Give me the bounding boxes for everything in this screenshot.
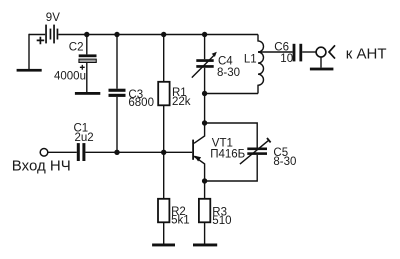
svg-text:к АНТ: к АНТ (346, 46, 387, 63)
ground (R3) (193, 244, 217, 247)
svg-text:22k: 22k (172, 96, 191, 108)
node rail/R1 (161, 32, 166, 37)
svg-text:6800: 6800 (128, 97, 154, 109)
wire input to C1 (48, 151, 77, 153)
node base/C3 (114, 150, 119, 155)
svg-text:9V: 9V (46, 12, 60, 24)
wire rail to C2 (86, 35, 88, 55)
svg-text:П416Б: П416Б (210, 149, 245, 161)
svg-text:510: 510 (212, 215, 231, 227)
resistor R3 (199, 199, 210, 223)
wire rail to C4 (204, 35, 206, 60)
svg-text:5k1: 5k1 (171, 215, 190, 227)
node collector/C5 (202, 120, 207, 125)
svg-text:10: 10 (280, 53, 293, 65)
resistor R1 (158, 82, 169, 106)
variable capacitor C5 (240, 138, 271, 164)
svg-text:2u2: 2u2 (75, 132, 94, 144)
inductor L1 (258, 35, 264, 94)
svg-text:4000u: 4000u (54, 70, 86, 82)
capacitor C2 (79, 54, 97, 69)
battery 9V (37, 25, 59, 45)
wire C5 to emitter node (205, 155, 258, 181)
svg-text:C6: C6 (274, 41, 289, 53)
ground (battery) (17, 69, 42, 72)
node rail/C4 (202, 32, 207, 37)
node L1/C4 (202, 91, 207, 96)
wire emitter node to R3 (204, 181, 206, 199)
node rail/C2 (84, 32, 89, 37)
ground (R2) (152, 244, 175, 247)
wire R1 to base line (163, 105, 165, 152)
node emitter (202, 178, 207, 183)
wire base line (85, 151, 192, 153)
wire C3 to base line (116, 97, 118, 152)
wire C4 to collector node (204, 68, 206, 94)
input terminal (40, 149, 48, 157)
svg-text:8-30: 8-30 (217, 67, 240, 79)
ground (antenna) (310, 68, 334, 71)
wire top supply rail (58, 34, 258, 36)
wire collector node to C5 (205, 123, 258, 148)
transistor VT1 (192, 123, 204, 181)
wire battery left lead (29, 34, 45, 36)
svg-text:Вход НЧ: Вход НЧ (12, 158, 71, 175)
capacitor C6 (293, 44, 303, 62)
wire L1 node to collector node (204, 94, 206, 124)
wire socket to ground (320, 57, 322, 68)
antenna connector pin chevron (329, 45, 335, 58)
wire C6 to antenna jack (302, 51, 316, 53)
resistor R2 (158, 199, 169, 223)
svg-text:C4: C4 (218, 55, 233, 67)
capacitor C3 (109, 89, 126, 97)
capacitor C1 (77, 143, 86, 161)
svg-text:8-30: 8-30 (273, 156, 296, 168)
node rail/C3 (114, 32, 119, 37)
variable capacitor C4 (192, 52, 217, 78)
ground (C2) (75, 92, 100, 95)
wire L1 bottom to collector node (205, 93, 258, 95)
wire R3 to ground (204, 222, 206, 243)
svg-text:C2: C2 (69, 41, 84, 53)
wire L1 tap to C6 (258, 51, 293, 53)
svg-text:VT1: VT1 (212, 137, 233, 149)
node base/R1/R2 (161, 150, 166, 155)
wire base node to R2 (163, 152, 165, 199)
svg-text:L1: L1 (244, 53, 257, 65)
wire rail to C3 (116, 35, 118, 89)
wire C2 to ground (86, 62, 88, 92)
wire rail to R1 (163, 35, 165, 82)
wire from battery to ground (28, 34, 30, 70)
antenna connector socket (316, 47, 326, 57)
wire R2 to ground (163, 222, 165, 243)
